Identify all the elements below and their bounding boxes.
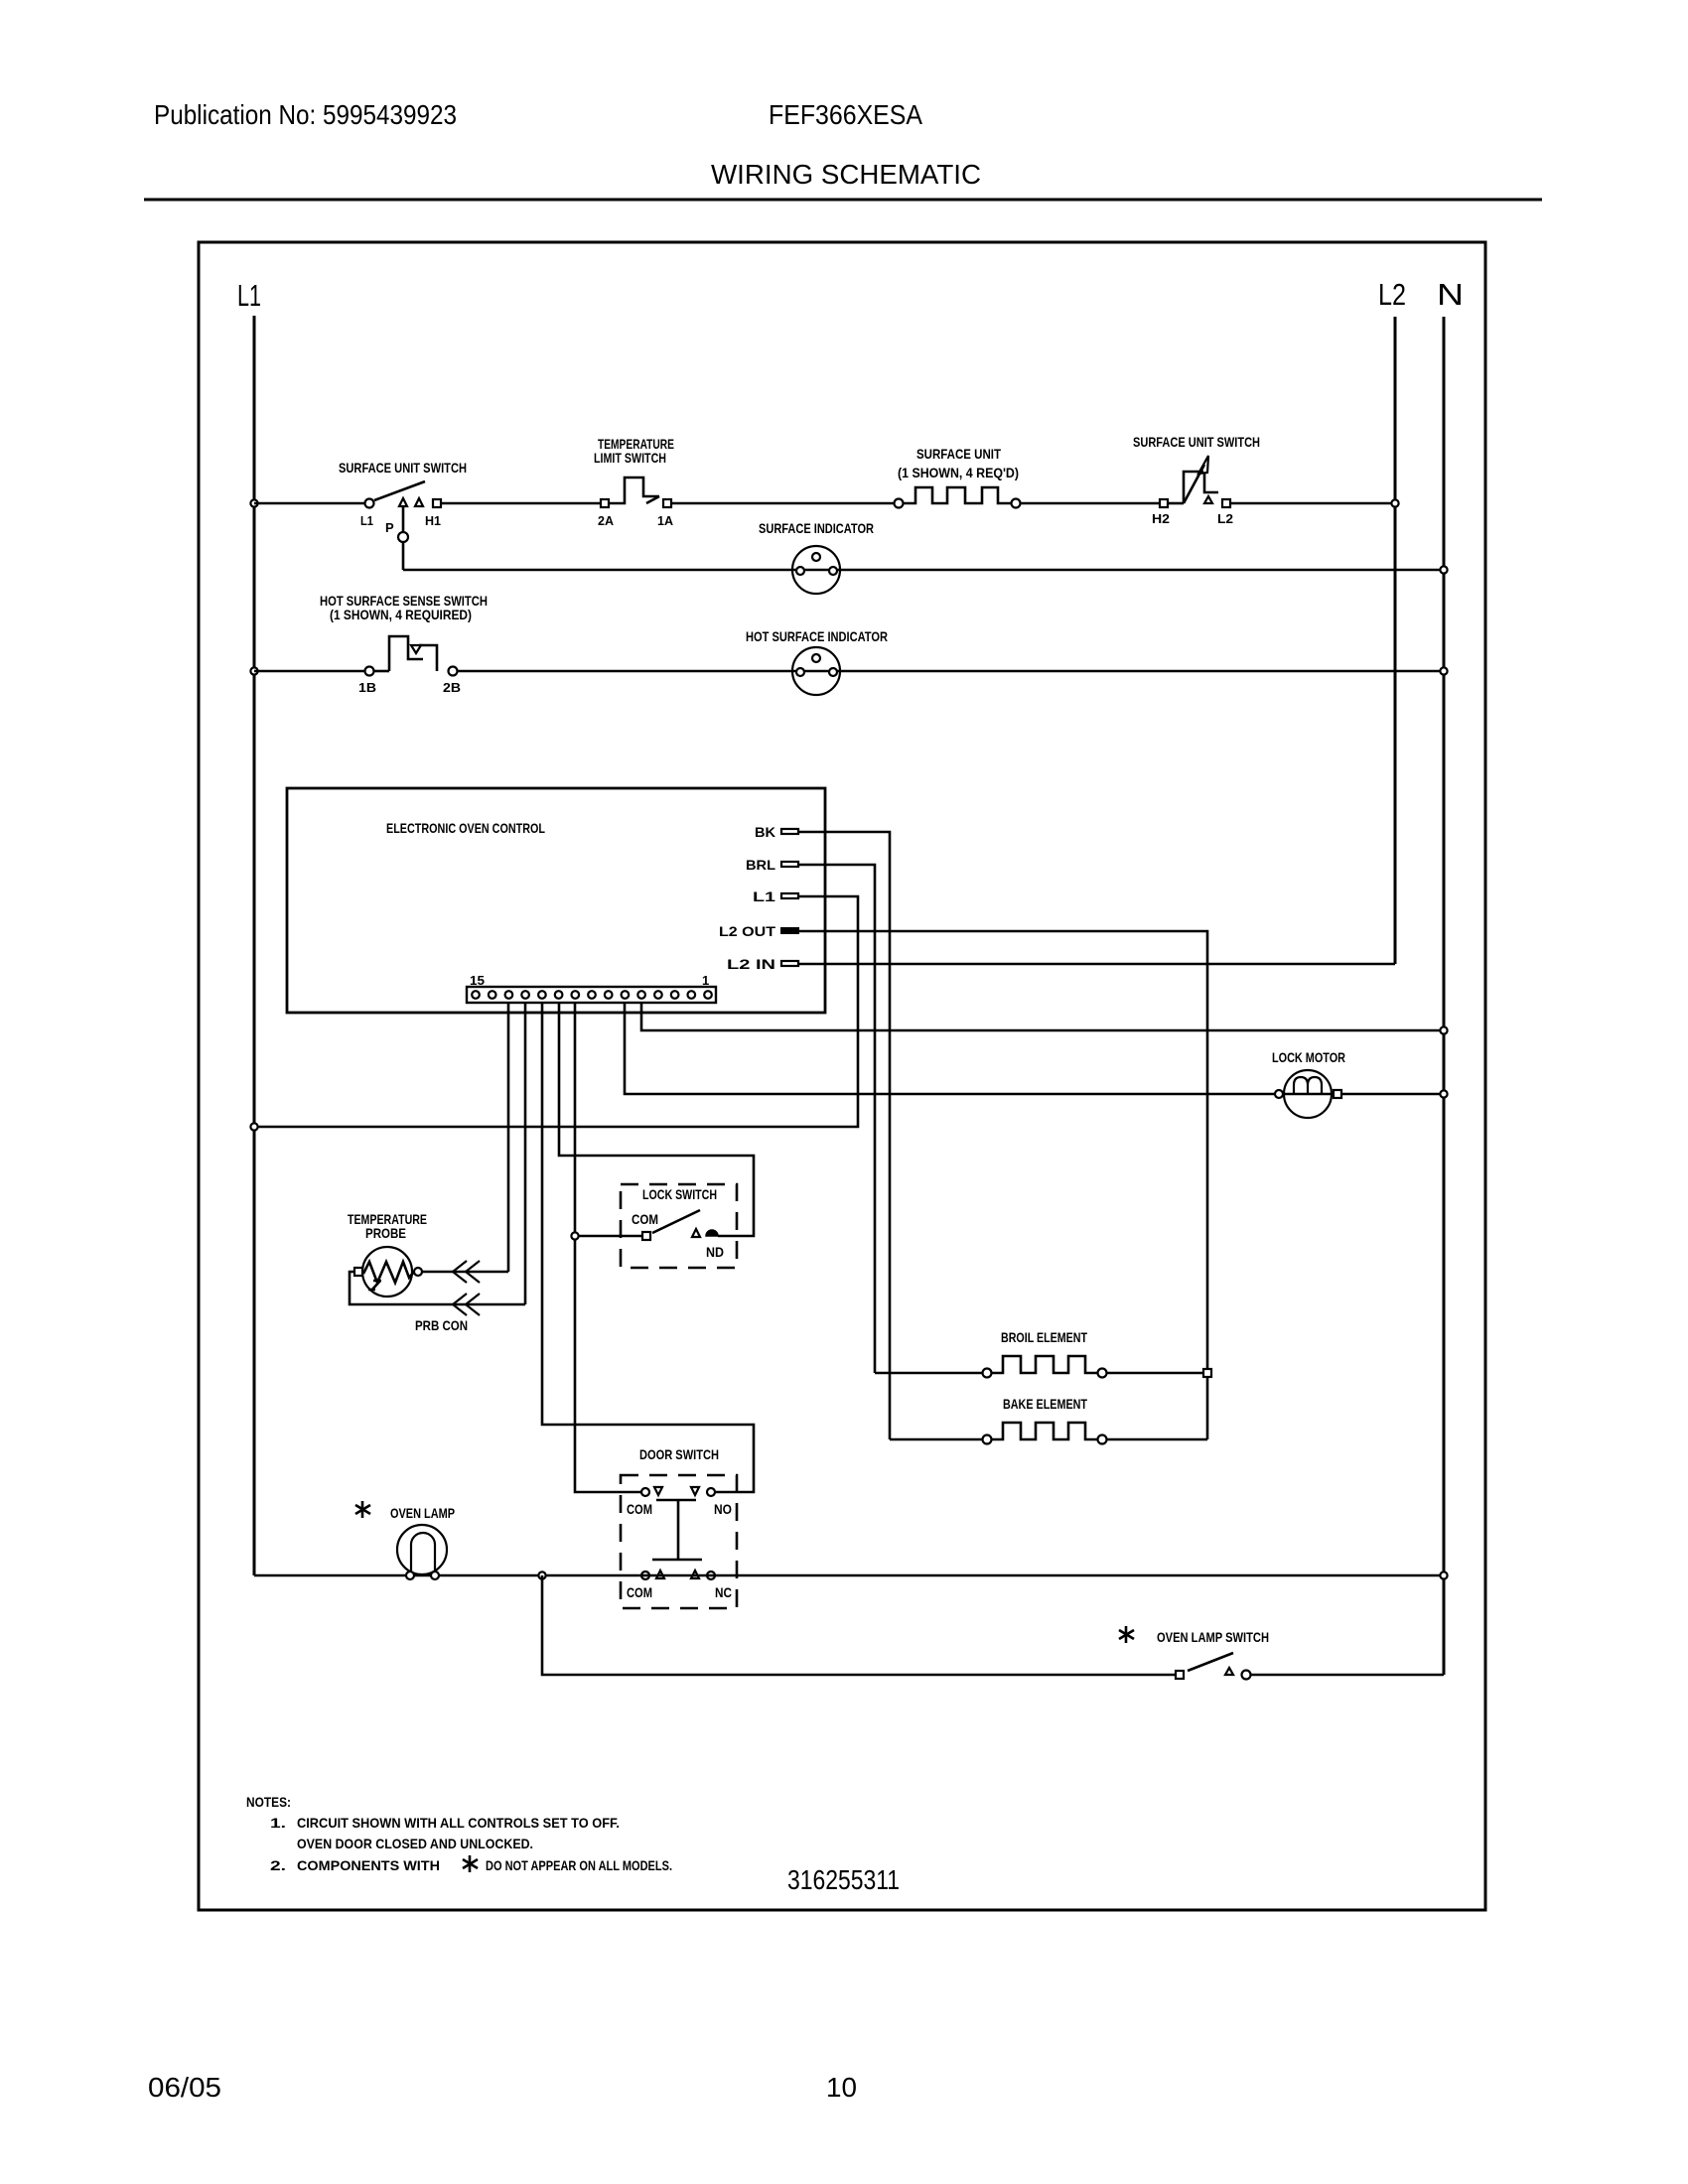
svg-text:OVEN LAMP: OVEN LAMP xyxy=(390,1505,455,1521)
svg-text:L2 OUT: L2 OUT xyxy=(719,923,776,939)
svg-text:SURFACE UNIT SWITCH: SURFACE UNIT SWITCH xyxy=(339,460,467,476)
wire surface unit to H2 xyxy=(1021,502,1160,505)
oven lamp switch xyxy=(1119,1626,1269,1680)
svg-text:SURFACE INDICATOR: SURFACE INDICATOR xyxy=(759,520,874,536)
junction lock switch COM tap xyxy=(571,1232,578,1239)
svg-text:ELECTRONIC OVEN CONTROL: ELECTRONIC OVEN CONTROL xyxy=(386,820,545,836)
svg-text:PRB CON: PRB CON xyxy=(415,1317,468,1333)
hot surface sense switch xyxy=(320,593,488,695)
svg-text:1A: 1A xyxy=(657,513,674,528)
lock motor xyxy=(1272,1049,1444,1118)
svg-text:LIMIT SWITCH: LIMIT SWITCH xyxy=(594,450,666,466)
svg-text:NO: NO xyxy=(714,1501,732,1517)
wire strip pin3 to probe xyxy=(507,1003,510,1272)
lock switch xyxy=(579,1184,737,1268)
svg-text:OVEN DOOR CLOSED AND UNLOCKED.: OVEN DOOR CLOSED AND UNLOCKED. xyxy=(297,1836,533,1851)
svg-text:1B: 1B xyxy=(358,680,376,695)
wire strip pin5 to door switch NO xyxy=(542,1003,754,1492)
svg-text:PROBE: PROBE xyxy=(365,1225,406,1241)
wire probe to chevron pin3 xyxy=(422,1271,508,1274)
wire L2 bus xyxy=(1394,317,1397,964)
svg-text:L2: L2 xyxy=(1378,277,1406,312)
wire surface indicator row xyxy=(403,569,1444,572)
terminal strip of EOC, pins 15..1 xyxy=(467,973,716,1003)
svg-text:CIRCUIT SHOWN WITH ALL CONTROL: CIRCUIT SHOWN WITH ALL CONTROLS SET TO O… xyxy=(297,1815,620,1831)
svg-text:NOTES:: NOTES: xyxy=(246,1794,291,1810)
svg-text:H1: H1 xyxy=(425,513,441,528)
svg-text:N: N xyxy=(1437,277,1464,312)
svg-text:1.: 1. xyxy=(270,1815,286,1831)
svg-text:WIRING SCHEMATIC: WIRING SCHEMATIC xyxy=(711,159,981,190)
wire row2 L1-bus to 1B xyxy=(254,670,364,673)
junction lock motor row at N xyxy=(1440,1090,1447,1097)
svg-text:NC: NC xyxy=(715,1584,732,1600)
svg-text:(1 SHOWN, 4 REQ'D): (1 SHOWN, 4 REQ'D) xyxy=(898,465,1019,480)
svg-text:L1: L1 xyxy=(237,278,261,313)
wire L2 OUT tab to elements xyxy=(798,931,1207,1439)
node L1 xyxy=(237,278,261,1575)
connector chevrons PRB CON top xyxy=(453,1261,480,1283)
svg-text:OVEN LAMP SWITCH: OVEN LAMP SWITCH xyxy=(1157,1629,1269,1645)
svg-text:DO NOT APPEAR ON ALL MODELS.: DO NOT APPEAR ON ALL MODELS. xyxy=(486,1857,672,1873)
wire hot surface indicator row xyxy=(458,670,1444,673)
svg-text:L1: L1 xyxy=(360,513,373,528)
svg-text:1: 1 xyxy=(702,973,709,988)
wire oven lamp row xyxy=(254,1574,1444,1577)
surface unit (heating element) xyxy=(895,446,1021,508)
wire lamp switch to N bus xyxy=(1251,1674,1444,1677)
node N xyxy=(1437,277,1464,1675)
junction L1 bus at 1135 xyxy=(250,1123,257,1130)
wire strip pin6 to lock switch NO xyxy=(559,1003,754,1236)
border frame xyxy=(199,242,1485,1910)
wire BRL tab to broil element xyxy=(798,865,875,1373)
svg-text:HOT SURFACE INDICATOR: HOT SURFACE INDICATOR xyxy=(746,628,888,644)
svg-text:COM: COM xyxy=(632,1211,658,1227)
bake element xyxy=(890,1396,1207,1444)
svg-text:(1 SHOWN, 4 REQUIRED): (1 SHOWN, 4 REQUIRED) xyxy=(330,607,472,622)
svg-text:15: 15 xyxy=(470,973,485,988)
surface indicator xyxy=(759,520,874,594)
wire lamp switch loop xyxy=(542,1575,1176,1675)
wire row1 L1-bus to switch xyxy=(254,502,364,505)
wire probe return xyxy=(350,1272,525,1304)
svg-text:2B: 2B xyxy=(443,680,461,695)
svg-text:SURFACE UNIT SWITCH: SURFACE UNIT SWITCH xyxy=(1133,434,1260,450)
svg-text:COMPONENTS WITH: COMPONENTS WITH xyxy=(297,1857,440,1873)
svg-text:06/05: 06/05 xyxy=(148,2072,221,2103)
svg-text:DOOR SWITCH: DOOR SWITCH xyxy=(639,1446,719,1462)
wire L2 IN tab to L2 bus xyxy=(798,963,1395,966)
junction on L2 bus xyxy=(1391,499,1398,506)
svg-text:LOCK MOTOR: LOCK MOTOR xyxy=(1272,1049,1345,1065)
notes xyxy=(246,1794,672,1873)
junction hot surface indicator row at N xyxy=(1440,667,1447,674)
wire L1 bus xyxy=(253,316,256,1575)
svg-text:316255311: 316255311 xyxy=(787,1864,900,1895)
svg-text:ND: ND xyxy=(706,1244,724,1260)
door switch xyxy=(621,1446,737,1608)
wire strip pin11 to N bus xyxy=(641,1003,1444,1030)
svg-text:BAKE ELEMENT: BAKE ELEMENT xyxy=(1003,1396,1087,1412)
svg-text:FEF366XESA: FEF366XESA xyxy=(769,99,922,130)
wire 1A to surface unit xyxy=(671,502,894,505)
svg-text:2A: 2A xyxy=(598,513,615,528)
wire strip pin7 to door switch COM xyxy=(575,1003,641,1492)
oven lamp xyxy=(355,1501,455,1579)
surface unit switch (left) xyxy=(339,460,467,535)
connector chevrons PRB CON bottom xyxy=(453,1294,480,1315)
junction oven lamp row tap xyxy=(538,1571,545,1578)
wire L2 terminal to L2 bus xyxy=(1230,502,1395,505)
svg-text:P: P xyxy=(385,520,394,535)
svg-text:Publication No: 5995439923: Publication No: 5995439923 xyxy=(154,99,457,130)
wire BK tab to bake element xyxy=(798,832,890,1439)
wire N bus xyxy=(1443,317,1446,1675)
svg-text:SURFACE UNIT: SURFACE UNIT xyxy=(916,446,1001,462)
svg-text:10: 10 xyxy=(826,2072,857,2103)
surface unit switch (right) xyxy=(1133,434,1260,526)
svg-text:2.: 2. xyxy=(270,1857,286,1873)
title block xyxy=(144,99,1542,2103)
junction door switch row at N xyxy=(1440,1571,1447,1578)
wire P drop xyxy=(398,506,408,570)
broil element xyxy=(875,1329,1211,1378)
junction surface indicator row at N xyxy=(1440,566,1447,573)
electronic oven control U1 xyxy=(287,788,825,1013)
node L2 xyxy=(1378,277,1406,964)
junction pin11 row at N xyxy=(1440,1026,1447,1033)
svg-text:COM: COM xyxy=(627,1501,652,1517)
wire H1 to 2A xyxy=(441,502,601,505)
wire strip pin4 to probe return xyxy=(524,1003,527,1304)
svg-text:BRL: BRL xyxy=(746,857,775,873)
svg-text:BK: BK xyxy=(755,824,775,840)
wire strip pin10 to lock motor xyxy=(625,1003,1275,1094)
svg-text:H2: H2 xyxy=(1152,511,1170,526)
svg-text:COM: COM xyxy=(627,1584,652,1600)
svg-text:BROIL ELEMENT: BROIL ELEMENT xyxy=(1001,1329,1087,1345)
hot surface indicator xyxy=(746,628,888,695)
wire L1 tab down to L1 bus xyxy=(254,896,858,1127)
svg-text:L1: L1 xyxy=(753,888,775,904)
junction on L1 row 2 xyxy=(250,667,257,674)
svg-text:L2 IN: L2 IN xyxy=(727,956,775,972)
temperature probe xyxy=(348,1211,427,1297)
junction on L1 row 1 xyxy=(250,499,257,506)
svg-text:LOCK SWITCH: LOCK SWITCH xyxy=(642,1186,717,1202)
temperature limit switch xyxy=(594,436,674,528)
svg-text:L2: L2 xyxy=(1217,511,1233,526)
